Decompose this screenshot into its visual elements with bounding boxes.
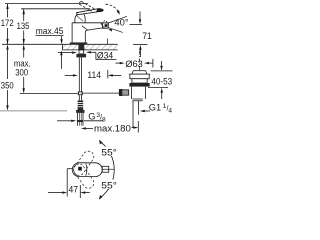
node 40 degree angle legs	[108, 16, 127, 32]
node side inlet of waste	[119, 89, 128, 96]
wire second reference line (lever rest height)	[21, 8, 90, 10]
svg-text:350: 350	[1, 81, 14, 92]
node dimension 114	[65, 39, 122, 81]
node aerator tilted dashed	[101, 20, 109, 28]
node dimension max.180	[81, 121, 138, 135]
svg-text:55°: 55°	[101, 147, 117, 158]
wire supply pipe	[79, 57, 81, 91]
node label 55deg lower	[101, 180, 119, 192]
svg-text:40°: 40°	[114, 18, 128, 29]
node plan view lever pill	[72, 163, 102, 177]
wire spout height reference line	[130, 23, 143, 25]
node dimension max.300	[14, 44, 31, 93]
node dimension 71	[139, 12, 152, 58]
svg-text:max.180: max.180	[94, 124, 131, 135]
node G3/8 threaded end	[76, 95, 84, 126]
svg-text:40-53: 40-53	[151, 76, 172, 87]
wire floor line	[0, 110, 67, 112]
node dimension 172	[1, 4, 14, 45]
node 40 degree arc dashed with arrows	[106, 4, 120, 31]
svg-text:Ø34: Ø34	[97, 50, 113, 61]
node deck cross-section hatched	[62, 44, 117, 50]
wire deck extension right	[133, 44, 148, 46]
node dimension arrows O34	[58, 50, 117, 61]
node lever raised dashed	[79, 1, 95, 11]
node plan dashed lever up	[71, 149, 96, 178]
wire top reference line (raised lever height)	[5, 3, 88, 5]
node label 55deg upper	[101, 147, 119, 159]
node drain centerline	[138, 51, 140, 71]
wire waste tail pipe	[133, 101, 138, 128]
node pop-up waste flange	[129, 71, 150, 87]
svg-text:135: 135	[17, 21, 30, 32]
node label max.45	[36, 26, 64, 69]
svg-text:300: 300	[15, 68, 28, 79]
wire pop-up rod	[83, 92, 119, 94]
node label G1 1/4 with arrow	[140, 102, 173, 114]
wire deck top reference line	[2, 43, 118, 45]
node swing arc with arrows	[99, 140, 114, 200]
node lever solid	[77, 9, 104, 15]
node plan dashed lever down	[71, 162, 96, 191]
svg-text:172: 172	[1, 18, 14, 29]
svg-text:55°: 55°	[101, 180, 117, 191]
node dimension 40-53	[148, 61, 173, 99]
node shank in deck	[76, 44, 86, 57]
wire supply-end reference line	[20, 93, 78, 95]
node aerator cap	[103, 23, 109, 28]
node rod connector	[78, 91, 83, 95]
node dimension O63	[115, 59, 152, 70]
svg-text:71: 71	[142, 31, 152, 42]
node dimension 350	[1, 44, 14, 110]
node pop-up waste body	[131, 87, 145, 101]
svg-text:114: 114	[87, 70, 101, 81]
node dimension 135	[17, 9, 30, 45]
svg-text:47: 47	[69, 184, 79, 195]
node label G3/8 with arrow	[57, 112, 106, 124]
node dimension 47	[48, 169, 90, 198]
svg-text:Ø63: Ø63	[125, 59, 142, 70]
node faucet body side view	[70, 13, 103, 44]
node plan lever shaft	[102, 166, 114, 172]
